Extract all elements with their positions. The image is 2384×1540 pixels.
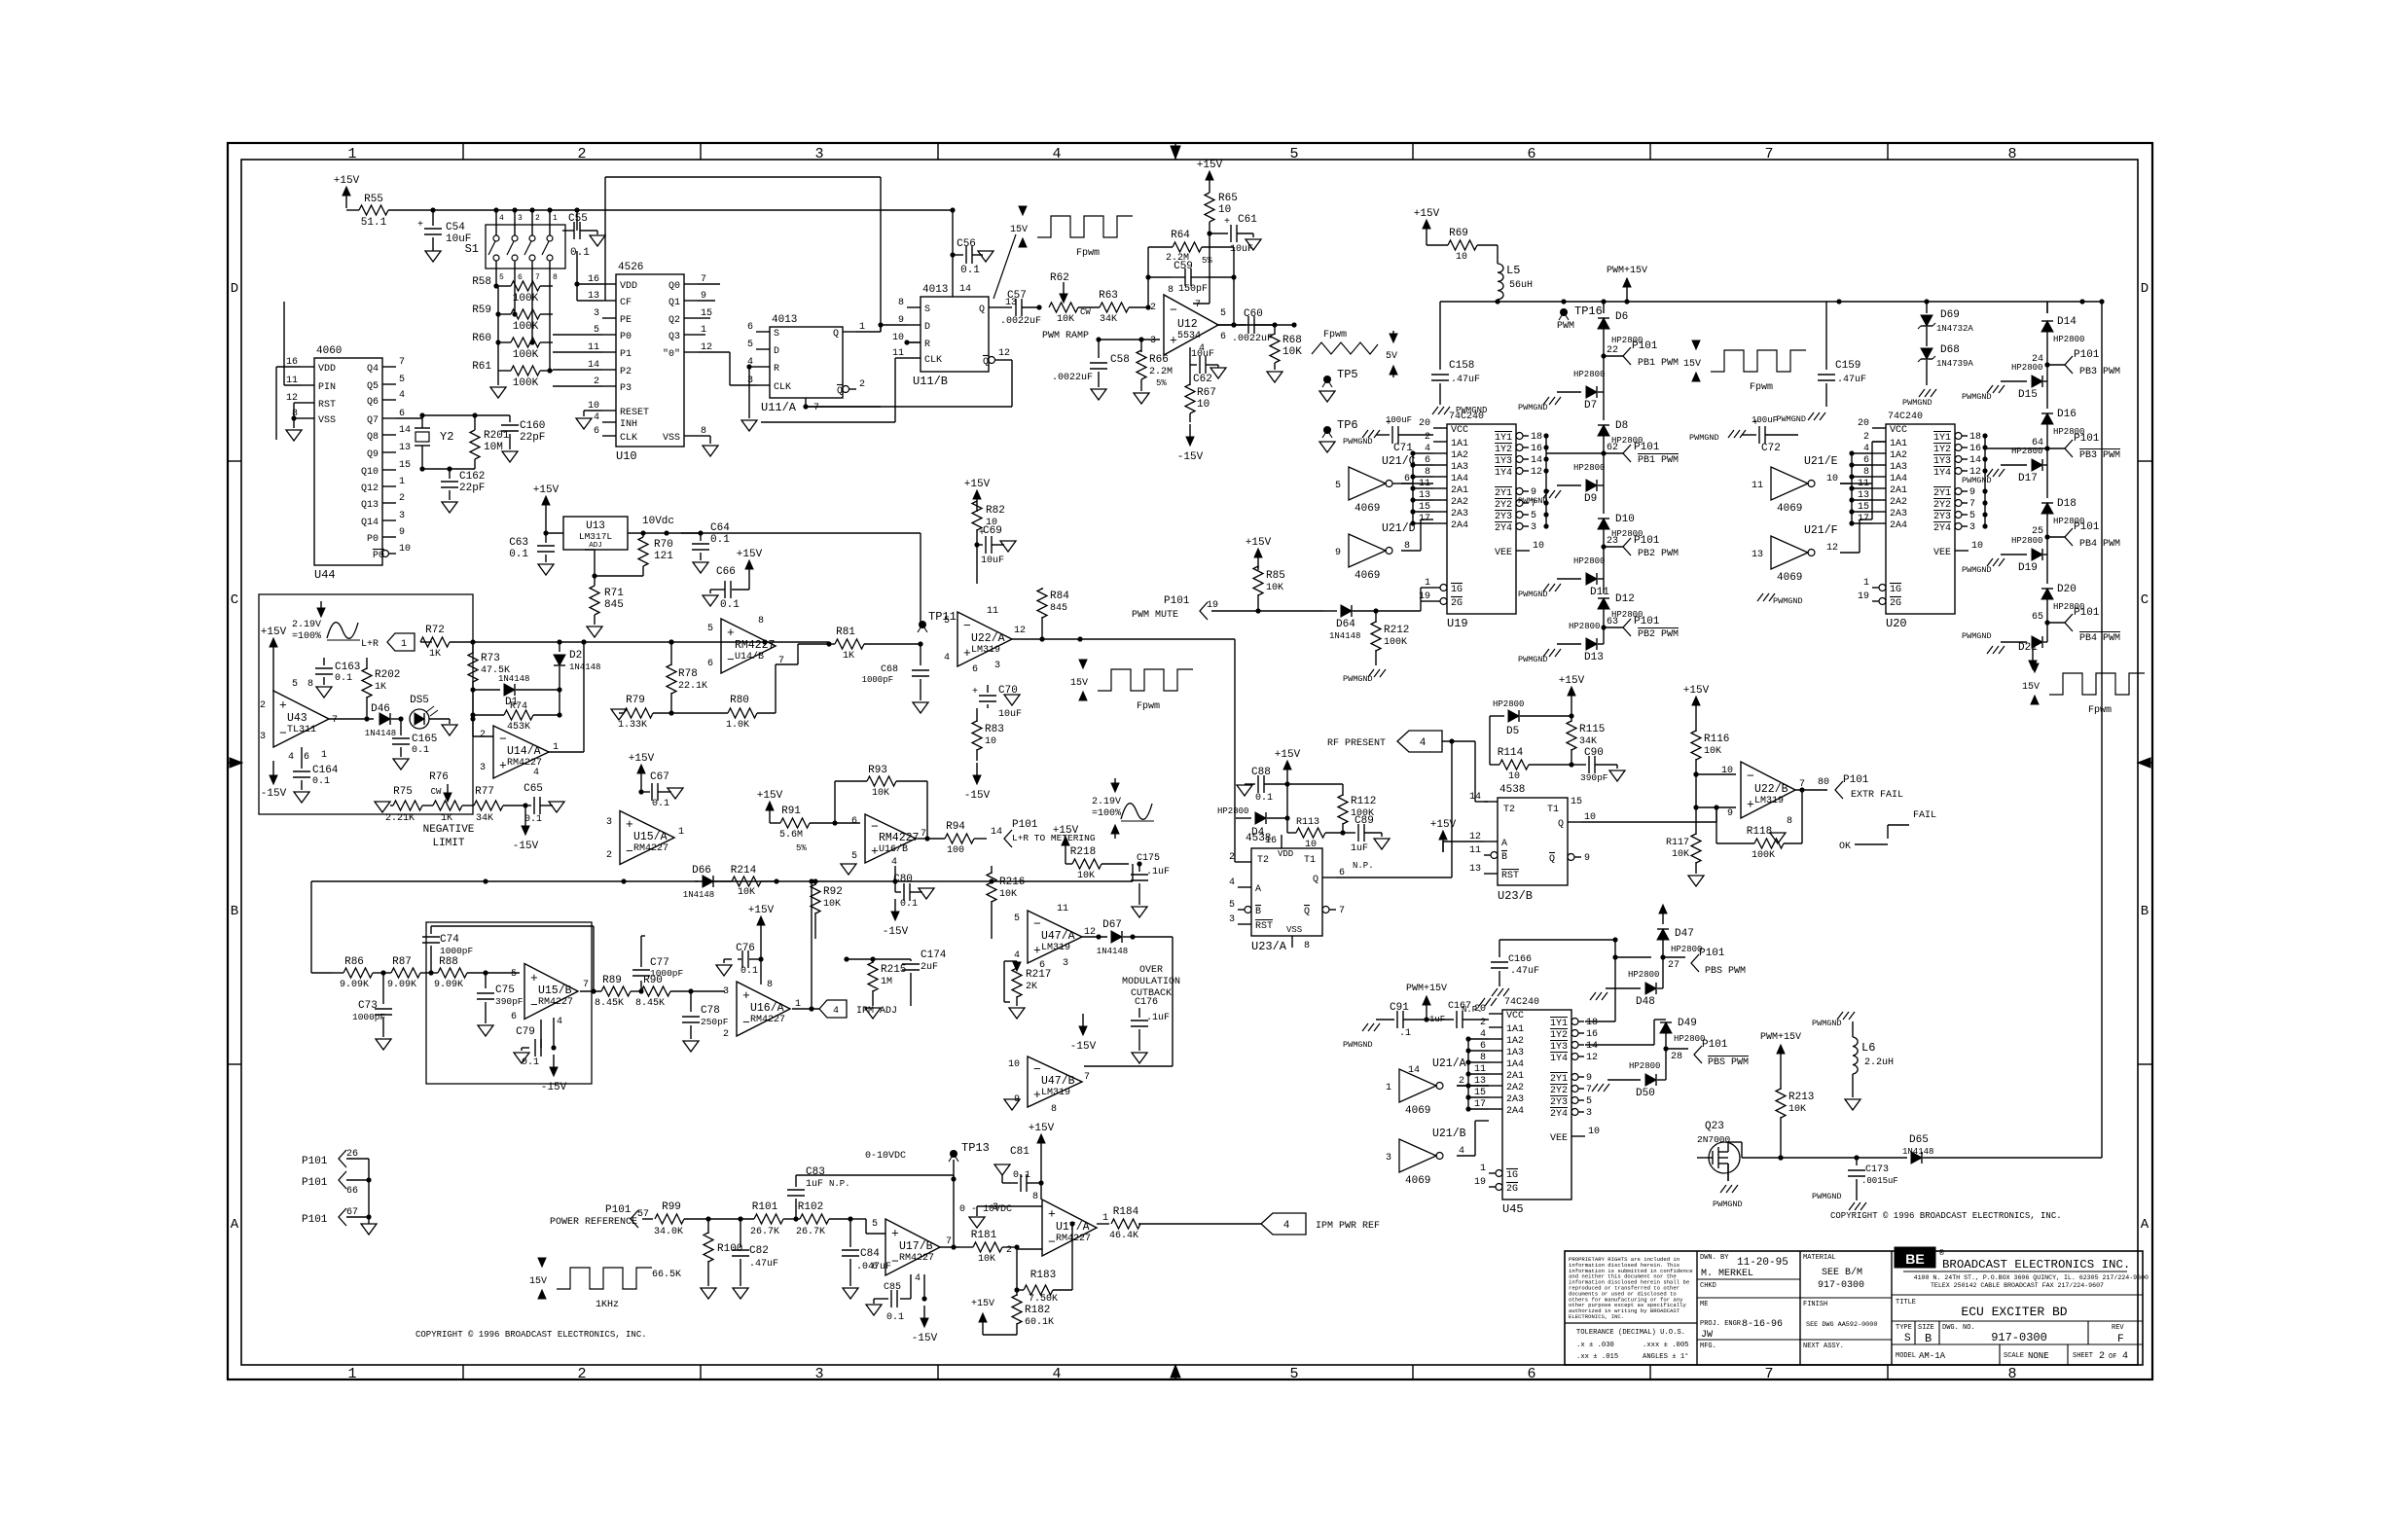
diode D14 [2046,302,2048,313]
svg-text:U21/F: U21/F [1804,524,1838,537]
diode D47 [1662,913,1664,920]
svg-text:C164: C164 [312,765,339,776]
svg-text:−: − [742,1016,750,1030]
svg-text:N.P.: N.P. [829,1179,850,1189]
svg-text:12: 12 [998,348,1010,359]
svg-text:+15V: +15V [1246,537,1272,549]
svg-text:+15V: +15V [757,790,783,802]
capacitor C64 [700,533,702,541]
svg-text:C163: C163 [335,662,360,673]
capacitor C69 [974,542,979,547]
svg-text:7: 7 [332,715,338,726]
svg-text:RM4227: RM4227 [633,843,668,854]
svg-text:VCC: VCC [1506,1011,1524,1021]
svg-text:0.1: 0.1 [710,534,730,546]
svg-text:LM319: LM319 [1041,1088,1070,1098]
svg-text:+: + [963,646,971,661]
svg-text:12: 12 [1586,1053,1598,1063]
svg-text:HP2800: HP2800 [2011,363,2042,373]
svg-text:Q4: Q4 [367,364,379,375]
svg-text:D10: D10 [1615,514,1635,525]
svg-text:7: 7 [1084,1072,1090,1083]
svg-text:28: 28 [1671,1052,1682,1062]
tag 1 input [387,633,415,651]
wire Q23 drain [1727,1142,1729,1152]
svg-text:15V: 15V [2022,682,2040,693]
svg-text:2Y1: 2Y1 [1495,488,1512,499]
capacitor C84 [848,1216,852,1221]
svg-text:AM-1A: AM-1A [1919,1351,1946,1361]
svg-text:3: 3 [518,214,523,223]
svg-text:ADJ: ADJ [589,542,602,550]
resistor R117 [1695,774,1697,835]
svg-text:2: 2 [1006,1245,1012,1256]
capacitor C76 [738,958,741,960]
connector P101 25 PB4 PWM [2044,534,2049,539]
svg-text:1: 1 [347,1366,356,1382]
svg-text:R213: R213 [1788,1092,1814,1103]
svg-text:Q: Q [1549,854,1555,865]
IC U20 74C240 [1886,424,1955,614]
capacitor C68 [920,644,921,665]
svg-text:P101: P101 [1634,535,1660,547]
capacitor C67 [640,786,642,792]
svg-text:Q8: Q8 [367,432,379,443]
svg-text:U22/A: U22/A [971,632,1005,645]
svg-text:1K: 1K [441,813,452,824]
svg-text:HP2800: HP2800 [1569,622,1600,631]
svg-text:L5: L5 [1506,264,1520,277]
svg-text:Fpwm: Fpwm [1750,382,1773,393]
capacitor C60 [1216,324,1246,326]
svg-text:10K: 10K [1704,746,1721,757]
svg-text:+: + [530,971,538,985]
svg-text:C88: C88 [1251,767,1271,778]
power -15V U47A [1082,1014,1084,1027]
resistor R82 [972,501,982,530]
wire R70 R71 [595,575,643,577]
svg-text:−: − [499,733,507,747]
resistor R55 [346,209,359,211]
svg-text:1Y2: 1Y2 [1550,1030,1568,1041]
IC U23/A 4538 [1251,848,1322,936]
svg-text:2Y2: 2Y2 [1495,500,1512,511]
wire U20 inputs vert [1871,442,1873,519]
svg-text:1: 1 [553,214,558,223]
svg-text:R89: R89 [602,975,622,986]
svg-text:-15V: -15V [883,926,909,938]
svg-text:3: 3 [723,986,729,997]
svg-text:390pF: 390pF [1580,772,1608,783]
wire C65 down -15V [524,806,526,813]
svg-text:R117: R117 [1666,838,1689,848]
svg-text:HP2800: HP2800 [1493,699,1524,709]
svg-text:C72: C72 [1761,443,1781,454]
svg-text:U23/A: U23/A [1251,940,1287,953]
svg-text:4: 4 [1052,1366,1061,1382]
svg-text:2: 2 [1425,432,1430,443]
svg-text:CF: CF [620,298,632,308]
svg-text:+15V: +15V [1197,160,1223,171]
svg-text:POWER REFERENCE: POWER REFERENCE [550,1217,637,1228]
svg-text:.47uF: .47uF [1837,375,1866,385]
svg-text:1A4: 1A4 [1451,474,1468,484]
svg-text:74C240: 74C240 [1449,412,1484,422]
svg-text:TYPE: TYPE [1896,1324,1912,1332]
svg-text:6: 6 [518,273,523,282]
svg-text:6: 6 [1527,1366,1535,1382]
wire U17B plus [850,1218,866,1220]
svg-text:5%: 5% [796,843,807,853]
svg-text:EXTR FAIL: EXTR FAIL [1851,790,1903,801]
resistor R81 [829,643,835,645]
diode D6 [1603,302,1605,313]
svg-text:5%: 5% [1156,378,1167,388]
svg-text:4: 4 [1420,737,1427,749]
capacitor C173 [1856,1158,1858,1165]
svg-text:+15V: +15V [1559,675,1585,687]
svg-text:C82: C82 [749,1245,769,1257]
svg-text:Q: Q [1304,907,1310,917]
wire U17B out [940,1246,959,1248]
svg-text:5: 5 [1289,146,1298,162]
svg-text:R84: R84 [1050,591,1069,602]
capacitor C62 [1190,364,1197,366]
resistor R61 [498,370,511,372]
zener D68 [1921,348,1932,359]
svg-text:4: 4 [557,1017,562,1027]
svg-text:P101: P101 [2074,433,2100,445]
svg-text:C: C [231,592,238,608]
svg-text:R88: R88 [439,956,458,968]
svg-text:4: 4 [915,1273,921,1284]
resistor R215 [872,959,874,963]
svg-text:0.1: 0.1 [335,673,352,684]
svg-text:U21/D: U21/D [1382,522,1416,535]
svg-text:1uF: 1uF [806,1179,823,1190]
svg-text:C61: C61 [1238,214,1257,226]
svg-text:1G: 1G [1506,1170,1518,1181]
svg-text:34K: 34K [1579,736,1597,747]
svg-text:D: D [2141,281,2149,297]
svg-text:U17/B: U17/B [899,1240,933,1253]
svg-text:A: A [2141,1217,2149,1233]
svg-text:2: 2 [480,730,486,740]
svg-text:13: 13 [399,443,411,453]
svg-text:1A2: 1A2 [1890,450,1907,461]
svg-text:5.6M: 5.6M [779,830,803,841]
svg-text:8: 8 [1032,1192,1038,1202]
svg-text:3: 3 [1531,522,1536,533]
svg-text:C83: C83 [806,1166,825,1178]
svg-text:1N4148: 1N4148 [498,674,529,684]
wire power ref [642,1218,653,1220]
svg-text:14: 14 [991,827,1002,838]
svg-text:PWMGND: PWMGND [1518,496,1548,506]
svg-text:0.1: 0.1 [720,599,740,611]
svg-text:-15V: -15V [964,790,991,802]
svg-text:2A2: 2A2 [1890,497,1907,508]
svg-text:.47uF: .47uF [749,1259,778,1270]
resistor R183 [1014,1287,1019,1292]
resistor R75 [375,802,390,812]
ground R217 [1009,1008,1025,1019]
test point TP16 [1560,308,1568,316]
svg-text:10K: 10K [1057,314,1074,325]
svg-text:10: 10 [1456,252,1467,263]
svg-text:14: 14 [1586,1041,1598,1052]
svg-text:10K: 10K [1266,583,1283,593]
resistor R68 [1274,325,1276,335]
inverter U21/F [1771,536,1808,569]
svg-text:4069: 4069 [1777,572,1802,584]
svg-text:R202: R202 [375,669,400,681]
IC U44 4060 [314,358,382,565]
svg-text:.0022uF: .0022uF [1052,373,1093,383]
svg-text:6: 6 [511,1012,517,1022]
svg-text:2A4: 2A4 [1890,520,1907,531]
svg-text:5%: 5% [1202,256,1212,266]
svg-text:VEE: VEE [1933,548,1951,558]
svg-text:1: 1 [399,477,405,487]
svg-text:U16/B: U16/B [879,843,908,855]
svg-text:0.1: 0.1 [900,899,918,910]
svg-text:1Y4: 1Y4 [1550,1054,1568,1064]
capacitor C55 [576,210,578,231]
svg-text:SCALE: SCALE [2004,1352,2024,1360]
svg-text:5: 5 [1220,308,1226,319]
svg-text:Q0: Q0 [668,281,680,292]
svg-text:2A2: 2A2 [1451,497,1468,508]
svg-text:R80: R80 [730,695,749,706]
resistor R201 [474,415,476,430]
wire U12 pin3 [1099,339,1160,340]
svg-text:7: 7 [1764,146,1773,162]
wire U10 0 to U11A [698,351,730,353]
wire U45 inputs [1457,1085,1489,1087]
svg-text:2A4: 2A4 [1506,1106,1524,1117]
capacitor C61 [1207,231,1211,235]
diode D16 [2046,381,2048,409]
svg-text:PB3 PWM: PB3 PWM [2079,367,2120,377]
svg-text:C62: C62 [1193,374,1212,385]
svg-text:4069: 4069 [1405,1175,1430,1187]
svg-text:Q5: Q5 [367,381,379,392]
svg-text:D18: D18 [2057,498,2077,510]
svg-text:1: 1 [1863,578,1869,589]
svg-text:RM4227: RM4227 [750,1015,785,1025]
svg-text:1Y3: 1Y3 [1933,456,1951,467]
capacitor C89 [1343,832,1355,834]
svg-text:B: B [1925,1332,1932,1345]
svg-text:-15V: -15V [1070,1041,1097,1053]
U10 ground RESET [584,410,602,412]
svg-text:R78: R78 [678,668,698,680]
svg-text:+: + [972,687,978,698]
svg-text:D6: D6 [1615,311,1628,323]
svg-text:R216: R216 [999,877,1025,888]
svg-text:1N4148: 1N4148 [1902,1147,1933,1157]
svg-text:R181: R181 [971,1230,997,1241]
svg-text:9.09K: 9.09K [340,980,369,990]
power -15V C80 [894,899,896,913]
svg-text:2A1: 2A1 [1506,1071,1524,1082]
svg-text:.1uF: .1uF [1146,1013,1170,1023]
wire U12 out right [1216,324,1275,326]
svg-text:0.1: 0.1 [740,966,758,977]
svg-text:C91: C91 [1390,1002,1409,1014]
squarewave 15V 1KHz [557,1268,652,1289]
svg-text:10K: 10K [872,788,889,799]
svg-text:1uF: 1uF [1429,1015,1445,1024]
op-amp U12 [1164,295,1218,355]
resistor R74 [473,714,504,716]
svg-text:D46: D46 [371,703,390,715]
capacitor C78 [690,991,692,1012]
diode D1 [473,689,500,691]
svg-text:R91: R91 [781,806,801,817]
svg-text:2Y2: 2Y2 [1550,1086,1568,1096]
resistor R64 [1173,242,1202,252]
svg-text:IPM PWR REF: IPM PWR REF [1316,1221,1380,1232]
svg-text:+: + [891,1227,899,1241]
svg-text:D65: D65 [1909,1134,1929,1146]
svg-text:C65: C65 [524,783,543,795]
svg-text:−: − [1170,304,1177,318]
svg-text:BROADCAST ELECTRONICS INC.: BROADCAST ELECTRONICS INC. [1942,1258,2130,1271]
svg-text:1.33K: 1.33K [618,720,647,731]
svg-text:Q7: Q7 [367,415,379,426]
svg-text:2: 2 [723,1029,729,1040]
svg-text:.0015uF: .0015uF [1861,1176,1898,1186]
svg-text:1000pF: 1000pF [440,946,474,956]
wire U45 out bus [1585,1021,1615,1022]
svg-text:13: 13 [1469,864,1481,875]
svg-text:+: + [1033,1088,1041,1102]
diode D4 [1236,817,1251,819]
U10 VSS ground [698,435,710,437]
svg-text:R201: R201 [484,430,510,442]
svg-text:DWN. BY: DWN. BY [1700,1254,1729,1262]
svg-text:14: 14 [1469,792,1481,803]
svg-text:C56: C56 [957,238,976,250]
svg-text:15V: 15V [529,1276,547,1287]
svg-text:JW: JW [1701,1330,1713,1341]
svg-text:10K: 10K [823,899,841,910]
svg-text:D64: D64 [1336,619,1355,630]
switch S1 [486,225,565,269]
capacitor C72 100uF [1742,434,1756,436]
wire U11B Qbar loop [1002,359,1012,361]
capacitor C71 100uF [1376,434,1390,436]
svg-text:R81: R81 [836,627,855,638]
svg-text:VDD: VDD [620,281,637,292]
resistor R112 [1287,783,1343,785]
svg-text:R217: R217 [1026,969,1051,981]
svg-text:2A4: 2A4 [1451,520,1468,531]
svg-text:8: 8 [767,980,773,990]
arrow to PB4 wave [2032,642,2034,662]
svg-text:+15V: +15V [629,753,655,765]
svg-text:2A3: 2A3 [1506,1094,1524,1105]
inductor L6 [1837,1012,1855,1020]
resistor R83 [976,708,978,722]
capacitor C70 [987,685,989,693]
svg-text:HP2800: HP2800 [1674,1034,1705,1044]
svg-text:+: + [417,220,423,231]
svg-text:HP2800: HP2800 [2053,335,2084,344]
svg-text:12: 12 [1014,626,1026,636]
IC U19 74C240 [1447,424,1516,614]
capacitor C66 [748,582,750,590]
svg-text:2: 2 [577,146,586,162]
svg-text:18: 18 [1969,432,1981,443]
wire U43 top supplies [272,660,274,692]
svg-text:1A4: 1A4 [1506,1059,1524,1070]
svg-text:2Y4: 2Y4 [1495,523,1512,534]
svg-text:1Y4: 1Y4 [1933,468,1951,479]
resistor R86 [343,968,373,978]
resistor R80 [671,712,728,714]
svg-text:LM319: LM319 [1754,796,1784,806]
op-amp U14/A [493,726,549,778]
svg-text:C159: C159 [1835,360,1860,372]
resistor R118 [1716,842,1754,844]
svg-text:R65: R65 [1218,193,1238,204]
svg-text:PWMGND: PWMGND [1812,1192,1842,1201]
wire U13 out [628,532,681,534]
U12 feedback wires [1147,247,1149,307]
svg-text:2.19V: 2.19V [292,620,321,630]
svg-text:VDD: VDD [318,364,336,375]
svg-text:4: 4 [1229,877,1235,888]
svg-text:0-10VDC: 0-10VDC [865,1151,906,1162]
svg-text:R214: R214 [731,865,757,877]
svg-text:2Y4: 2Y4 [1550,1109,1568,1120]
svg-text:C89: C89 [1355,815,1374,827]
svg-text:12: 12 [1826,543,1838,554]
svg-text:2: 2 [1150,303,1156,313]
svg-text:D: D [774,346,779,357]
svg-text:6: 6 [304,752,309,763]
svg-text:P0: P0 [620,332,632,342]
resistor R99 [655,1214,684,1224]
svg-text:PB4 PWM: PB4 PWM [2079,539,2120,550]
svg-text:R69: R69 [1449,228,1468,239]
svg-text:3: 3 [260,732,266,742]
svg-text:15V: 15V [1683,359,1701,370]
svg-text:453K: 453K [507,722,530,733]
svg-text:2Y3: 2Y3 [1550,1097,1568,1108]
svg-text:4: 4 [288,752,294,763]
resistor R85 [1253,566,1263,595]
wire U21E comb [1840,483,1852,484]
svg-text:OK: OK [1839,842,1851,852]
svg-text:C84: C84 [860,1248,880,1260]
capacitor C164 [301,747,303,769]
svg-text:9: 9 [399,527,405,538]
svg-text:2.21K: 2.21K [385,813,415,824]
svg-text:PWMGND: PWMGND [1962,631,1992,641]
svg-text:8: 8 [2007,146,2016,162]
U11/A pin7 [805,398,807,407]
svg-text:U11/A: U11/A [761,401,797,414]
svg-text:1N4739A: 1N4739A [1936,359,1973,369]
svg-text:NONE: NONE [2028,1351,2049,1361]
svg-text:4: 4 [944,653,950,663]
svg-text:D13: D13 [1584,652,1604,663]
svg-text:D69: D69 [1940,309,1960,321]
